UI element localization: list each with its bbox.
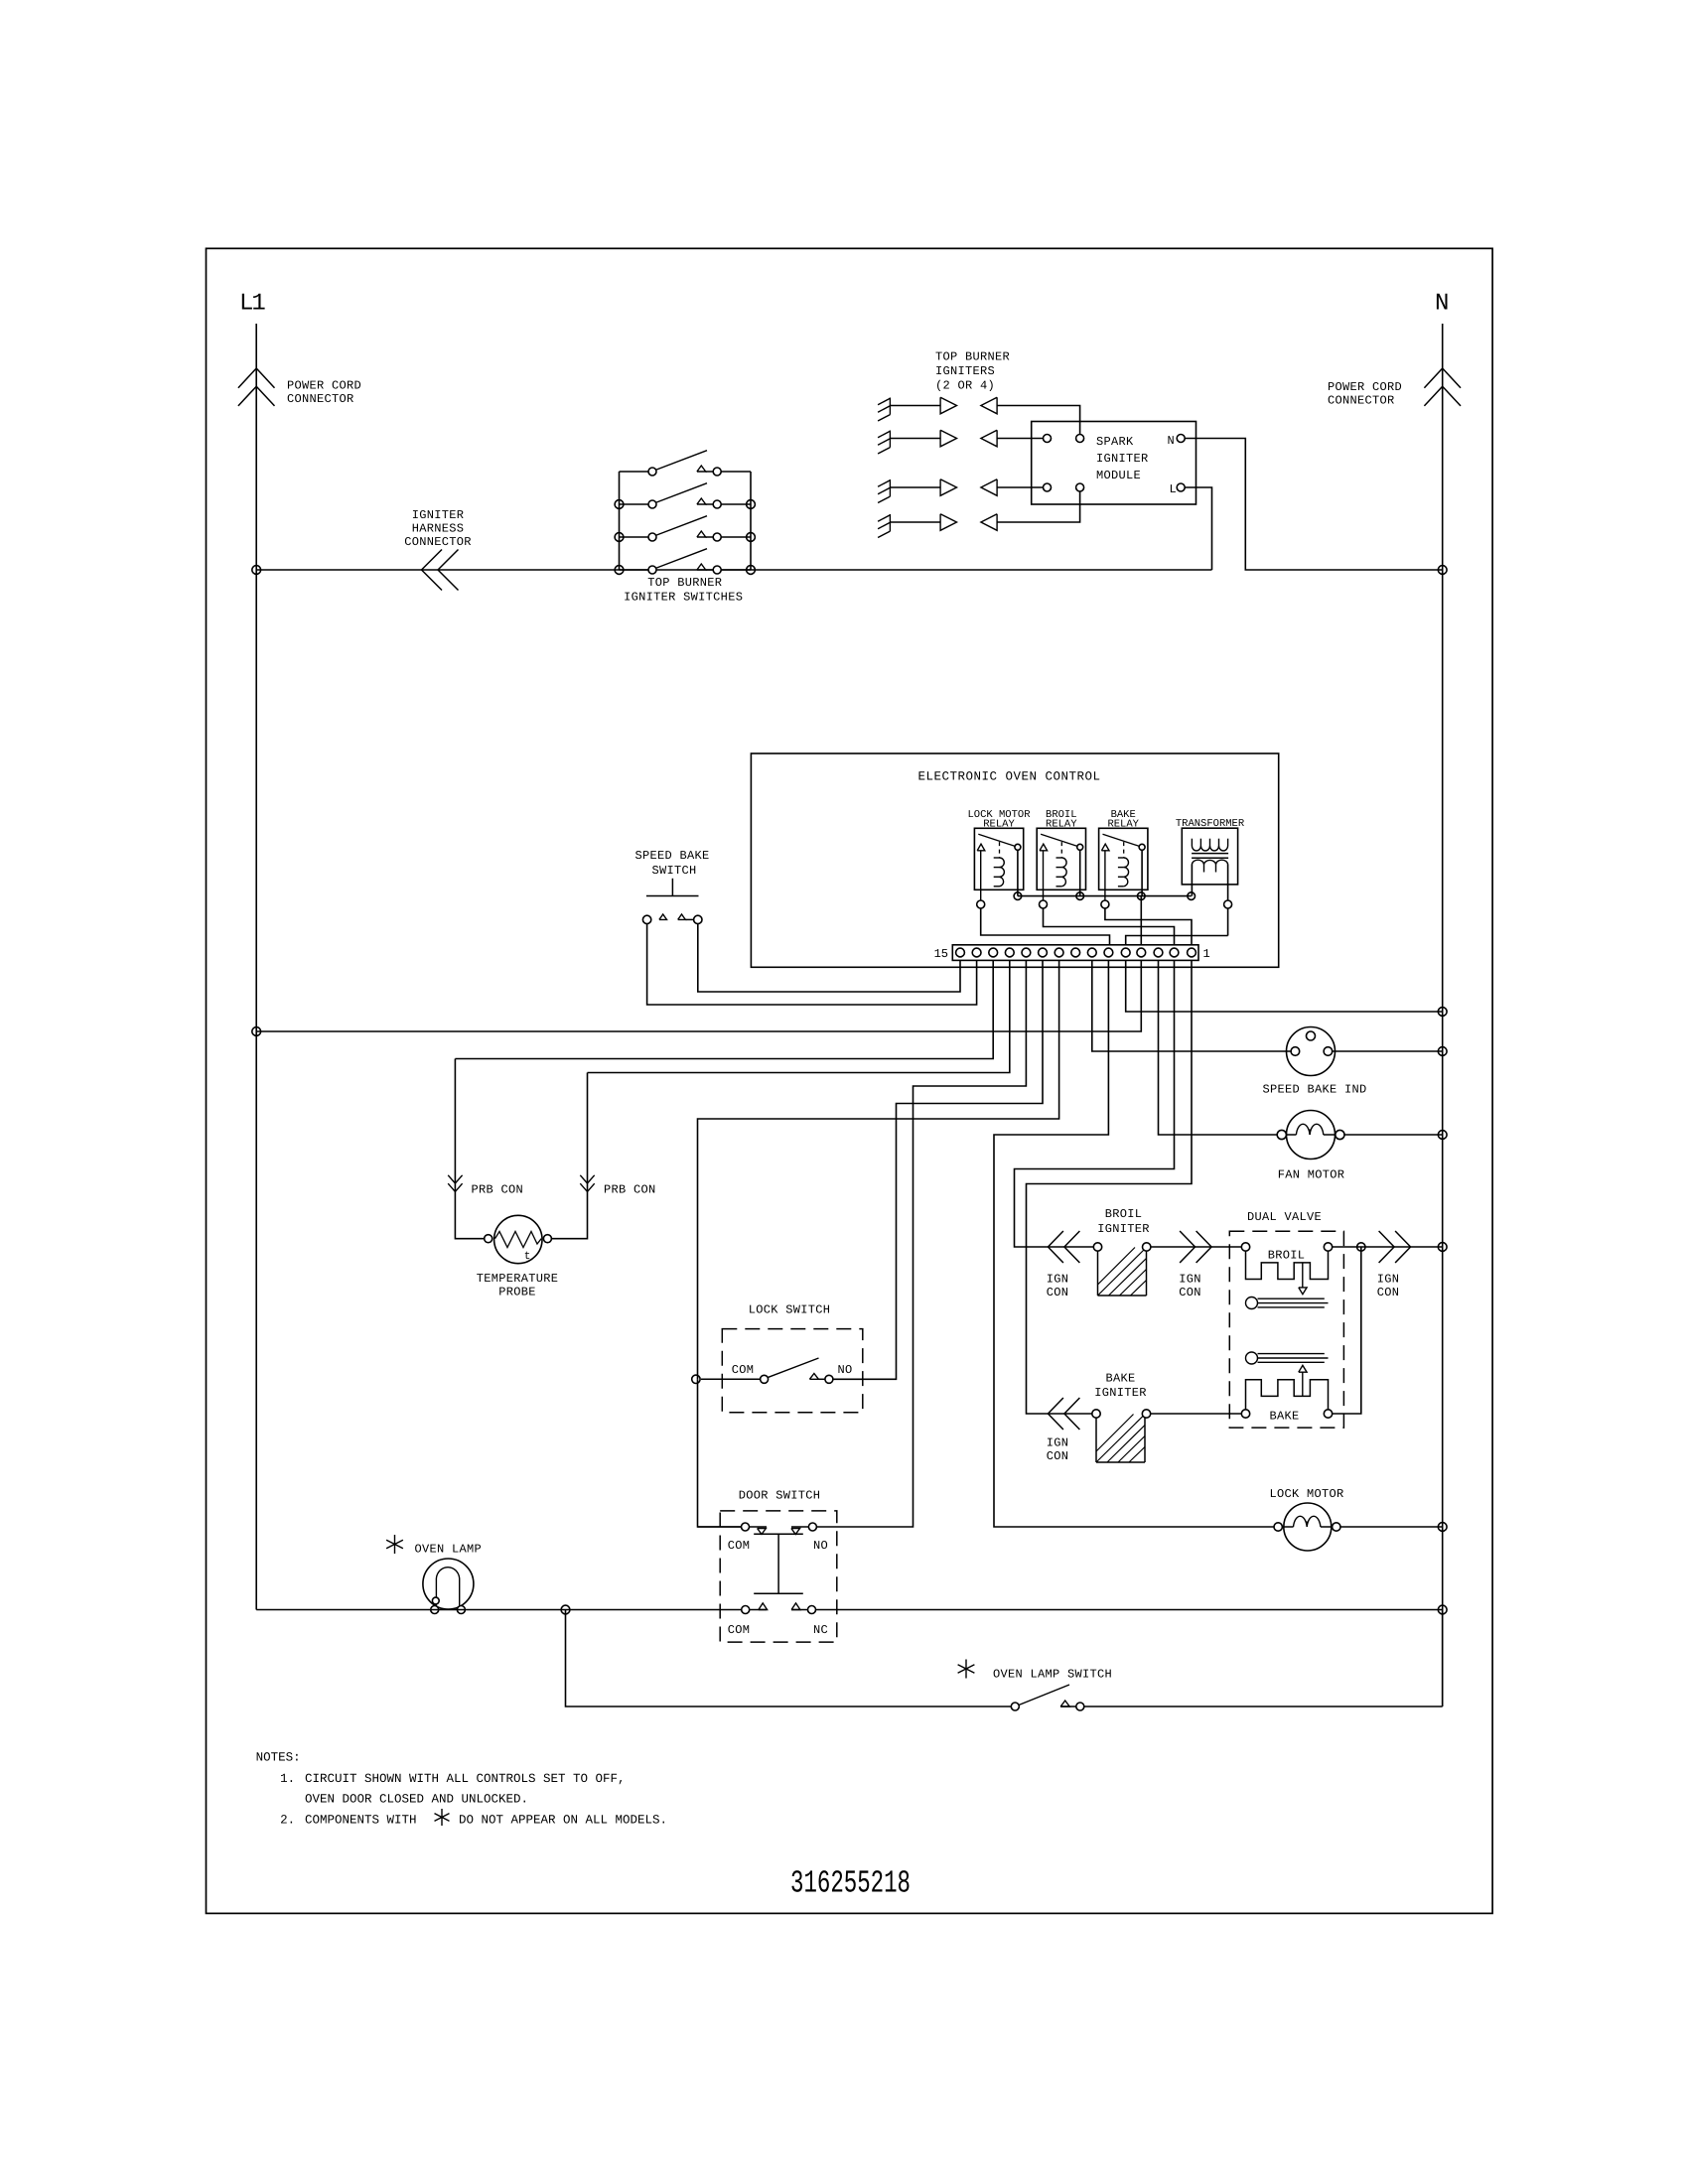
svg-text:IGNITERS: IGNITERS: [935, 364, 995, 378]
wire igniter 3 to module: [997, 486, 1043, 488]
igniter switch row 1: [620, 471, 649, 473]
svg-text:OVEN LAMP: OVEN LAMP: [415, 1543, 483, 1557]
node N / terminal 5 wire: [1438, 1008, 1447, 1017]
power cord connector (L1): [255, 324, 257, 570]
node N / fan motor: [1438, 1131, 1447, 1140]
node lock switch COM / door switch COM wire: [692, 1375, 700, 1383]
wire L1 row to igniter switches and spark module L: [256, 569, 1211, 571]
svg-text:DO NOT APPEAR ON ALL MODELS.: DO NOT APPEAR ON ALL MODELS.: [459, 1814, 667, 1828]
wire terminal 4 to L1 line: [256, 960, 1141, 1031]
terminal strip pin 8: [1071, 948, 1080, 957]
asterisk mark (note 2): [441, 1809, 443, 1826]
svg-text:SPEED BAKE: SPEED BAKE: [634, 849, 709, 863]
wire L1 vertical: [255, 570, 257, 1031]
terminal strip pin 12: [1005, 948, 1014, 957]
ignitor connector left of bake igniter (IGN CON): [1048, 1398, 1063, 1414]
svg-text:2.: 2.: [280, 1814, 295, 1828]
svg-text:COM: COM: [728, 1539, 751, 1553]
node N / bottom wire: [1438, 1605, 1447, 1614]
door switch lower contacts (COM-NC): [759, 1603, 768, 1610]
top burner igniter switches: [619, 472, 621, 570]
node N / lock motor: [1438, 1523, 1447, 1532]
node N / valve output: [1438, 1243, 1447, 1252]
node N / module wire: [1438, 566, 1447, 575]
svg-text:t: t: [524, 1251, 531, 1263]
svg-text:HARNESS: HARNESS: [412, 522, 465, 536]
node L1 / top wire: [252, 566, 261, 575]
wire broil relay coil to terminal 2: [1044, 908, 1175, 945]
svg-text:IGNITER: IGNITER: [1096, 452, 1149, 466]
terminal strip connector J1: [952, 945, 1198, 961]
asterisk mark (oven lamp switch): [965, 1660, 967, 1679]
svg-text:LOCK MOTOR: LOCK MOTOR: [1269, 1487, 1343, 1501]
svg-text:CON: CON: [1047, 1449, 1069, 1463]
wire terminal 5 to N line: [1126, 960, 1443, 1012]
wire fan motor to N line: [1344, 1134, 1443, 1136]
node bottom wire / oven lamp switch feed: [561, 1605, 570, 1614]
terminal strip pin 13: [989, 948, 998, 957]
svg-text:ELECTRONIC OVEN CONTROL: ELECTRONIC OVEN CONTROL: [917, 770, 1100, 784]
top burner igniter 1 electrode: [889, 398, 891, 415]
transformer T1: [1182, 828, 1237, 885]
svg-text:COM: COM: [732, 1363, 755, 1377]
wire N line bottom corner: [1442, 1610, 1444, 1707]
svg-text:DOOR SWITCH: DOOR SWITCH: [739, 1489, 821, 1503]
wire terminal 7 to speed bake indicator: [1092, 960, 1292, 1051]
svg-text:(2 OR 4): (2 OR 4): [935, 379, 995, 393]
speed bake indicator DS1: [1287, 1027, 1336, 1076]
wire terminal 10 to lock switch NO: [833, 960, 1043, 1379]
svg-text:OVEN DOOR CLOSED AND UNLOCKED.: OVEN DOOR CLOSED AND UNLOCKED.: [305, 1793, 528, 1807]
svg-text:CIRCUIT SHOWN WITH ALL CONTROL: CIRCUIT SHOWN WITH ALL CONTROLS SET TO O…: [305, 1772, 626, 1786]
node L1 / terminal-4 wire: [252, 1027, 261, 1036]
transformer secondary winding: [1192, 860, 1203, 864]
wire relay contact bus (L1): [1018, 895, 1192, 897]
wire N vertical: [1442, 570, 1444, 1706]
svg-text:IGN: IGN: [1179, 1273, 1201, 1287]
bake igniter E2: [1095, 1418, 1097, 1462]
terminal strip pin 3: [1154, 948, 1163, 957]
igniter switch row 4: [620, 569, 649, 571]
terminal strip pin 6: [1104, 948, 1113, 957]
wire igniter 2 to module: [997, 438, 1043, 440]
svg-text:L: L: [1169, 482, 1177, 496]
terminal strip pin 11: [1022, 948, 1031, 957]
electronic oven control box: [751, 753, 1278, 967]
spark module terminals: [1044, 435, 1052, 443]
top burner igniter 2 electrode: [889, 431, 891, 448]
ignitor connector valve output (IGN CON): [1395, 1231, 1411, 1247]
top burner igniter 3 spark gap: [890, 486, 940, 488]
node valve outputs junction: [1357, 1243, 1365, 1251]
wire speed bake switch right to terminal 15: [698, 919, 960, 992]
broil gas arrow: [1302, 1263, 1304, 1288]
svg-text:SPARK: SPARK: [1096, 435, 1134, 449]
igniter harness connector: [422, 550, 443, 571]
transformer right pin wire: [1227, 865, 1229, 936]
top burner igniter 4 electrode: [889, 514, 891, 531]
bake relay contact output wire: [1141, 850, 1143, 895]
igniter switch row 2: [620, 503, 649, 505]
wire oven lamp switch row: [566, 1610, 1012, 1707]
terminal strip pin 5: [1121, 948, 1130, 957]
bake gas arrow: [1299, 1365, 1307, 1372]
svg-text:PROBE: PROBE: [498, 1286, 536, 1299]
terminal strip pin 7: [1087, 948, 1096, 957]
svg-text:NO: NO: [837, 1363, 852, 1377]
svg-text:TEMPERATURE: TEMPERATURE: [477, 1272, 559, 1286]
bake gas outlet pipe: [1246, 1352, 1258, 1364]
svg-text:CON: CON: [1179, 1286, 1201, 1299]
power cord connector (N): [1442, 324, 1444, 570]
wire broil valve output to N line: [1333, 1246, 1443, 1248]
svg-text:316255218: 316255218: [790, 1865, 911, 1902]
svg-text:IGN: IGN: [1047, 1273, 1069, 1287]
wire terminal 2 to broil igniter: [1015, 960, 1175, 1247]
broil igniter E1: [1097, 1251, 1099, 1296]
svg-text:IGNITER: IGNITER: [412, 508, 465, 522]
bake relay: [1099, 828, 1148, 889]
node N / speed bake indicator: [1438, 1047, 1447, 1056]
svg-text:POWER CORD: POWER CORD: [287, 379, 361, 393]
dual valve terminals: [1241, 1243, 1249, 1251]
wire terminal 13 to left probe connector: [455, 960, 993, 1058]
wire igniter 1 to module: [997, 406, 1080, 435]
svg-text:NOTES:: NOTES:: [256, 1751, 301, 1765]
svg-text:BROIL: BROIL: [1268, 1249, 1306, 1263]
wire terminal 1 to bake igniter: [1027, 960, 1193, 1414]
svg-text:N: N: [1435, 291, 1448, 318]
svg-text:POWER CORD: POWER CORD: [1328, 380, 1402, 394]
svg-text:BAKE: BAKE: [1105, 1372, 1135, 1386]
svg-text:TRANSFORMER: TRANSFORMER: [1176, 818, 1245, 830]
transformer left pin wire: [1191, 865, 1193, 896]
svg-text:TOP BURNER: TOP BURNER: [647, 576, 722, 590]
svg-text:CON: CON: [1047, 1286, 1069, 1299]
terminal strip pin 15: [956, 948, 965, 957]
ignitor connector right of broil igniter (IGN CON): [1196, 1231, 1212, 1247]
ignitor connector left of broil igniter (IGN CON): [1048, 1231, 1063, 1247]
wire terminal 12 to right probe connector: [588, 960, 1010, 1072]
svg-text:IGNITER SWITCHES: IGNITER SWITCHES: [624, 591, 743, 605]
svg-text:NC: NC: [813, 1623, 828, 1637]
svg-text:L1: L1: [239, 291, 265, 318]
svg-text:SWITCH: SWITCH: [651, 864, 696, 878]
top burner igniter 4 spark gap: [890, 521, 940, 523]
svg-text:IGNITER: IGNITER: [1094, 1386, 1147, 1400]
svg-text:15: 15: [934, 947, 948, 961]
asterisk mark (oven lamp): [394, 1535, 396, 1554]
svg-text:TOP BURNER: TOP BURNER: [935, 350, 1010, 364]
svg-text:N: N: [1167, 434, 1175, 448]
top burner igniter 3 electrode: [889, 479, 891, 496]
top burner igniter 1 spark gap: [890, 405, 940, 407]
lock motor relay coil output terminal: [977, 900, 985, 908]
svg-text:CONNECTOR: CONNECTOR: [1328, 394, 1395, 408]
svg-text:COMPONENTS WITH: COMPONENTS WITH: [305, 1814, 417, 1828]
svg-text:COM: COM: [728, 1623, 751, 1637]
svg-text:IGN: IGN: [1047, 1436, 1069, 1450]
broil relay coil output terminal: [1040, 900, 1048, 908]
node bus / broil relay: [1076, 892, 1084, 900]
wire module N to N line: [1185, 439, 1443, 571]
node bus / bake relay / terminal 4: [1138, 892, 1146, 900]
lock motor relay: [974, 828, 1023, 889]
svg-text:BAKE: BAKE: [1269, 1410, 1299, 1424]
svg-text:NO: NO: [813, 1539, 828, 1553]
svg-text:CONNECTOR: CONNECTOR: [404, 535, 472, 549]
wire bake valve output to junction: [1333, 1247, 1361, 1414]
terminal strip pin 2: [1170, 948, 1179, 957]
wire transformer to terminal 5: [1126, 936, 1228, 946]
spark igniter module U1: [1032, 422, 1196, 505]
wire bottom row L1 to N (through oven lamp and door switch): [256, 1609, 767, 1611]
broil relay: [1037, 828, 1085, 889]
broil gas outlet pipe: [1246, 1297, 1258, 1309]
node bus / transformer left pin: [1188, 892, 1196, 900]
svg-text:CONNECTOR: CONNECTOR: [287, 392, 354, 406]
terminal strip pin 9: [1055, 948, 1063, 957]
speed bake switch terminals: [642, 915, 650, 923]
transformer core: [1192, 853, 1228, 855]
svg-text:DUAL VALVE: DUAL VALVE: [1247, 1210, 1322, 1224]
wire terminal 3 to fan motor: [1159, 960, 1278, 1135]
wire bake igniter to dual valve: [1151, 1413, 1242, 1415]
igniter switch row 3: [620, 536, 649, 538]
oven lamp DS2: [423, 1559, 474, 1609]
svg-text:IGNITER: IGNITER: [1097, 1222, 1150, 1236]
wire speed bake switch left to terminal 14: [647, 919, 977, 1005]
svg-text:MODULE: MODULE: [1096, 469, 1141, 482]
probe connector right (PRB CON): [551, 1073, 587, 1239]
wire igniter 4 to module: [997, 491, 1080, 522]
wire lock motor to N line: [1340, 1526, 1443, 1528]
bake relay coil output terminal: [1101, 900, 1109, 908]
transformer primary winding: [1191, 839, 1193, 846]
svg-text:SPEED BAKE IND: SPEED BAKE IND: [1262, 1083, 1366, 1097]
wire terminal 6 to lock motor: [994, 960, 1278, 1527]
svg-text:1: 1: [1203, 947, 1210, 961]
broil relay contact output wire: [1079, 850, 1081, 895]
probe connector left (PRB CON): [455, 1059, 484, 1239]
wire speed bake indicator to N line: [1333, 1050, 1443, 1052]
svg-text:RELAY: RELAY: [1107, 819, 1139, 831]
lock motor relay contact output wire: [1017, 850, 1019, 895]
wire terminal 9 to lock switch COM: [698, 960, 1059, 1379]
svg-text:PRB CON: PRB CON: [604, 1183, 656, 1197]
terminal strip pin 14: [972, 948, 981, 957]
wire bake relay coil to terminal 1: [1105, 908, 1192, 945]
svg-text:1.: 1.: [280, 1772, 295, 1786]
oven lamp switch S1: [1019, 1685, 1069, 1706]
door switch actuator: [754, 1533, 803, 1535]
svg-text:BROIL: BROIL: [1105, 1207, 1143, 1221]
terminal strip pin 1: [1188, 948, 1196, 957]
svg-text:OVEN LAMP SWITCH: OVEN LAMP SWITCH: [993, 1668, 1112, 1682]
wire module L to L1 row: [1185, 487, 1212, 570]
temperature probe RT1: [494, 1215, 542, 1263]
wire broil igniter to dual valve: [1151, 1246, 1242, 1248]
door switch lower terminals: [742, 1606, 750, 1614]
svg-text:RELAY: RELAY: [983, 819, 1015, 831]
border frame: [207, 248, 1493, 1913]
terminal strip pin 10: [1039, 948, 1048, 957]
svg-text:FAN MOTOR: FAN MOTOR: [1278, 1168, 1345, 1182]
wire terminal 11 to door switch NO: [816, 960, 1026, 1527]
svg-text:PRB CON: PRB CON: [472, 1183, 524, 1197]
svg-text:CON: CON: [1377, 1286, 1400, 1299]
svg-text:LOCK SWITCH: LOCK SWITCH: [749, 1303, 831, 1317]
door switch upper contacts (COM-NO): [698, 1526, 768, 1528]
wire lock/door COM junction down to door switch COM: [698, 1379, 742, 1527]
wire lock motor relay coil to terminal 6: [981, 908, 1110, 945]
terminal strip pin 4: [1137, 948, 1146, 957]
svg-text:RELAY: RELAY: [1046, 819, 1077, 831]
node bus / lock motor relay: [1014, 892, 1022, 900]
transformer right pin terminal: [1224, 900, 1232, 908]
top burner igniter 2 spark gap: [890, 438, 940, 440]
wire bus to terminal 4: [1140, 896, 1142, 945]
fan motor M1: [1287, 1111, 1336, 1160]
svg-text:IGN: IGN: [1377, 1273, 1400, 1287]
